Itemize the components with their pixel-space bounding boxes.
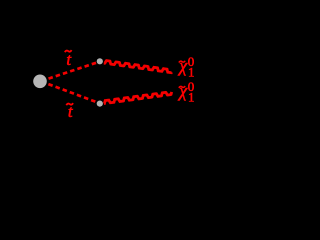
interaction blob	[33, 75, 47, 89]
decay vertex bottom	[97, 101, 103, 107]
svg-text:χ: χ	[177, 81, 188, 101]
label stop t (top): tilde	[65, 50, 72, 52]
neutralino wavy line bottom	[104, 92, 172, 104]
svg-text:χ: χ	[177, 56, 188, 76]
decay vertex top	[97, 58, 103, 64]
label neutralino top: tilde	[179, 61, 185, 63]
label neutralino bottom: tilde	[179, 86, 185, 88]
svg-text:1: 1	[188, 65, 195, 80]
label stop t (bottom): tilde	[66, 103, 73, 105]
svg-text:1: 1	[188, 90, 195, 105]
stop squark t1 dashed propagator (top)	[49, 63, 97, 79]
neutralino wavy line top	[104, 61, 172, 73]
stop squark t2 dashed propagator (bottom)	[48, 84, 96, 102]
